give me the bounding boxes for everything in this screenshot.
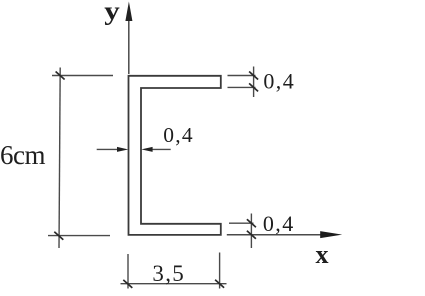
channel section outline [129,76,221,235]
svg-text:x: x [316,240,329,269]
dim 6cm bottom tick [54,232,63,240]
bottom flange dim upper extension line [229,222,254,224]
web thickness right arrow line [150,148,171,150]
dim 6cm dimension line [59,68,60,249]
x-axis arrowhead [320,231,342,238]
dim 6cm top extension line [52,75,113,77]
bottom flange dim upper tick [247,219,256,227]
dim 3,5 dimension line [121,283,227,285]
top flange dim upper tick [249,72,258,80]
web thickness right arrowhead [141,147,152,152]
top flange dim lower extension line [228,86,256,88]
web thickness left arrowhead [117,147,128,152]
dim 3,5 right extension line [219,253,221,289]
svg-text:0,4: 0,4 [263,68,295,93]
svg-text:6cm: 6cm [0,140,45,170]
bottom flange dim line [250,214,252,249]
top flange dim line [253,67,255,98]
y-axis arrowhead [125,2,132,22]
dim 6cm bottom extension line [48,235,110,237]
x-axis line [227,234,322,236]
dim 3,5 right tick [215,280,224,288]
bottom flange dim lower tick [247,231,256,239]
svg-text:3,5: 3,5 [152,261,185,286]
svg-text:y: y [104,0,120,25]
web thickness left arrow line [97,148,120,150]
svg-text:0,4: 0,4 [163,123,194,147]
dim 6cm top tick [56,72,65,80]
y-axis line [128,19,130,74]
top flange dim upper extension line [228,75,256,77]
svg-text:0,4: 0,4 [263,211,295,236]
dim 3,5 left extension line [127,254,129,289]
top flange dim lower tick [249,83,258,91]
dim 3,5 left tick [123,280,132,288]
